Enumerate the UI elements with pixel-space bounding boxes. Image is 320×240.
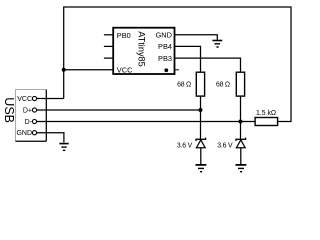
wire IC VCC pin to left vertical [64,69,113,71]
zener diode D1 3.6V [177,138,206,165]
svg-text:PB4: PB4 [158,42,172,51]
node junction D- [239,120,243,124]
pin circle VCC [32,96,36,100]
svg-text:3.6 V: 3.6 V [217,143,233,150]
ground USB [59,144,68,151]
resistor R1 68 ohm [177,72,205,96]
svg-text:D-: D- [25,119,33,126]
wire resistor R2 bottom to zener D2 [240,96,242,139]
pin 1 marker dot [164,68,168,72]
wire PB3 to resistor R2 [175,58,241,72]
wire VCC top loop [64,7,291,122]
zener diode D2 3.6V [217,138,245,165]
ground zener D2 [236,165,247,172]
wire VCC from USB pin to left vertical [37,98,64,100]
node junction D+ [199,108,203,112]
pin stub PB2 [104,57,113,59]
ground zener D1 [196,165,207,172]
wire D+ from USB to node [37,109,201,111]
svg-text:D+: D+ [23,108,32,115]
svg-text:68 Ω: 68 Ω [216,81,230,88]
resistor R3 1.5 kilo-ohm [255,110,278,125]
wire resistor R1 bottom to zener D1 [200,96,202,139]
wire PB4 to resistor R1 [175,46,201,72]
resistor R2 68 ohm [216,72,245,96]
node junction VCC [62,68,66,72]
svg-text:VCC: VCC [117,65,133,74]
op IC U1 ATtiny85 [104,28,179,75]
pin stub PB1 [104,45,113,47]
ground IC [212,41,222,48]
svg-text:PB0: PB0 [117,31,131,40]
svg-text:3.6 V: 3.6 V [177,143,193,150]
svg-text:GND: GND [16,130,32,137]
wire USB GND to ground [37,133,64,143]
svg-text:PB3: PB3 [158,54,172,63]
svg-text:68 Ω: 68 Ω [177,81,191,88]
svg-text:VCC: VCC [17,96,32,103]
svg-text:1.5 kΩ: 1.5 kΩ [256,110,276,117]
pin stub PB0 [104,34,113,36]
pin circle D+ [32,108,36,112]
USB connector J1 [2,90,46,142]
wire D- from USB to 1.5k resistor [37,121,255,123]
pin circle D- [32,119,36,123]
svg-text:USB: USB [2,97,16,123]
pin stub right bottom [175,69,180,71]
svg-text:ATtiny85: ATtiny85 [137,31,147,67]
svg-text:GND: GND [156,30,172,39]
wire IC GND pin to ground [175,35,218,40]
pin circle GND [32,131,36,135]
